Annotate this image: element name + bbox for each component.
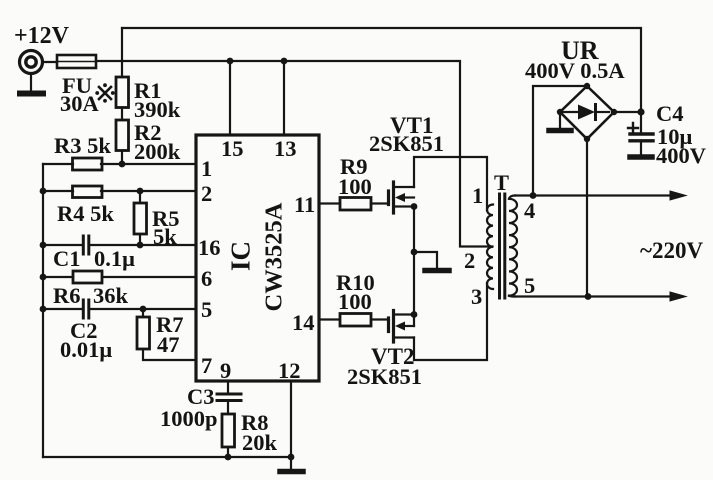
svg-text:30A: 30A <box>60 91 100 116</box>
resistor R8 20k <box>222 414 235 447</box>
svg-text:6: 6 <box>201 266 212 291</box>
label VT2 2SK851 <box>347 344 422 389</box>
label R8 20k <box>241 410 278 455</box>
svg-text:0.1μ: 0.1μ <box>94 246 135 271</box>
wire pin 14 line <box>319 318 340 320</box>
label R4 5k <box>57 201 114 226</box>
node pin5/R7 <box>140 306 147 313</box>
wire connector to fuse <box>43 61 57 63</box>
svg-text:+12V: +12V <box>14 23 70 49</box>
resistor R10 100 <box>340 314 371 327</box>
node pin13/rail <box>281 58 288 65</box>
svg-text:1: 1 <box>201 156 212 181</box>
svg-text:7: 7 <box>201 353 212 378</box>
svg-text:R4 5k: R4 5k <box>57 201 114 226</box>
op-amp/IC U1 CW3525A body <box>196 135 319 381</box>
label C3 1000p <box>160 384 218 431</box>
ground (MOSFET common source) <box>414 252 449 271</box>
resistor R1 390k <box>116 77 129 108</box>
capacitor C3 1000p <box>217 394 241 401</box>
wire bridge bottom corner to output5 <box>586 139 588 297</box>
resistor R4 5k <box>73 186 103 198</box>
label R1 390k <box>134 78 181 122</box>
svg-text:T: T <box>494 170 509 195</box>
wire VT1 drain riser to transformer pin1 <box>414 157 487 210</box>
node pin2/R5 junction <box>137 188 144 195</box>
wire VT1 source down bus <box>413 207 415 315</box>
wire R8 bottom lead <box>227 447 229 457</box>
node bus/pin2 <box>40 188 47 195</box>
svg-text:2SK851: 2SK851 <box>369 131 444 156</box>
label T and winding pins <box>464 170 535 309</box>
transformer T secondary winding <box>509 196 517 297</box>
svg-text:390k: 390k <box>134 97 181 122</box>
asterisk reference mark <box>95 83 114 102</box>
node source bus tap <box>411 249 418 256</box>
svg-text:100: 100 <box>338 289 372 314</box>
svg-text:3: 3 <box>471 284 482 309</box>
node R8/bottom rail <box>225 454 232 461</box>
label R6 36k <box>53 283 129 308</box>
svg-text:16: 16 <box>198 235 221 260</box>
node C4 tap <box>637 108 644 115</box>
wire pin 16 line <box>43 244 196 246</box>
label R2 200k <box>134 120 181 164</box>
svg-text:2: 2 <box>464 248 475 273</box>
wire pin 12 lead <box>290 381 292 457</box>
wire output line 4 with arrow <box>515 191 686 200</box>
ground (below +12V terminal) <box>20 74 43 94</box>
wire bridge right corner to C4 node <box>614 111 641 113</box>
svg-text:C4: C4 <box>656 101 684 126</box>
transistor Q2 VT2 2SK851 <box>389 311 415 343</box>
resistor R2 200k <box>116 120 129 151</box>
svg-text:47: 47 <box>157 332 180 357</box>
wire pin 11 line <box>319 202 340 204</box>
transistor Q1 VT1 2SK851 <box>389 182 415 213</box>
wire pin 2 line <box>43 190 196 192</box>
wire pin 9 lead <box>227 381 229 392</box>
transformer core <box>500 194 505 298</box>
node pin15/rail <box>227 58 234 65</box>
label C1 0.1u <box>53 246 135 271</box>
capacitor C1 0.1u <box>83 236 89 254</box>
svg-text:R3 5k: R3 5k <box>54 133 111 158</box>
ground (pin 12) <box>280 457 303 472</box>
label C4 10u 400V <box>656 101 706 168</box>
node bus/pin16 <box>40 242 47 249</box>
node output4/bridge feed <box>530 192 537 199</box>
svg-text:CW3525A: CW3525A <box>261 202 288 311</box>
svg-text:1000p: 1000p <box>160 406 218 431</box>
svg-text:~220V: ~220V <box>640 238 703 263</box>
label R5 5k <box>152 206 180 249</box>
svg-text:2: 2 <box>201 181 212 206</box>
svg-text:5: 5 <box>201 297 212 322</box>
wire VT2 drain to transformer pin3 <box>414 283 487 360</box>
svg-text:1: 1 <box>472 183 483 208</box>
svg-text:IC: IC <box>226 241 256 271</box>
node +12V label <box>14 23 70 49</box>
node R5/pin16 <box>137 242 144 249</box>
label R7 47 <box>156 312 184 357</box>
wire bottom rail <box>43 456 291 458</box>
wire pin 5 line <box>43 308 196 310</box>
resistor R3 5k <box>73 158 103 170</box>
wire C3 to R8 <box>227 403 229 415</box>
label ~220V <box>640 238 703 263</box>
node pin12/bottom rail <box>288 454 295 461</box>
label R3 5k <box>54 133 111 158</box>
capacitor C4 10u 400V <box>628 112 653 157</box>
label IC pin numbers <box>198 136 315 383</box>
svg-text:20k: 20k <box>242 430 278 455</box>
wire bridge top corner to output4 <box>533 86 587 196</box>
wire R2 bottom to pin1 line <box>121 151 123 165</box>
svg-text:9: 9 <box>220 358 231 383</box>
node output5/bridge feed <box>585 293 592 300</box>
svg-text:400V: 400V <box>656 143 706 168</box>
connector J1 (+12V input terminal) <box>20 51 43 74</box>
svg-text:200k: 200k <box>134 139 181 164</box>
wire pin 13 lead <box>283 61 285 135</box>
svg-text:100: 100 <box>338 174 372 199</box>
svg-text:14: 14 <box>292 310 315 335</box>
label R9 100 <box>338 154 372 199</box>
resistor R6 36k <box>73 271 102 283</box>
node VT2 source <box>411 311 418 318</box>
wire R5 top lead <box>139 191 141 203</box>
wire pin 6 line <box>43 276 196 278</box>
wire R7 bottom to pin 7 <box>143 349 196 360</box>
svg-text:C1: C1 <box>53 246 81 271</box>
label R10 100 <box>336 270 375 314</box>
wire R5 bottom lead <box>139 234 141 245</box>
label UR 400V 0.5A <box>525 36 625 83</box>
capacitor C2 0.01u <box>83 300 89 318</box>
wire output line 5 with arrow <box>515 292 686 301</box>
wire pin 1 line <box>43 163 196 165</box>
label VT1 2SK851 <box>369 113 444 156</box>
wire pin 15 lead <box>229 61 231 135</box>
svg-text:13: 13 <box>274 136 297 161</box>
node VT1 source <box>411 203 418 210</box>
wire R9 to VT1 gate <box>371 202 387 204</box>
svg-text:11: 11 <box>294 192 315 217</box>
ground (bridge left corner) <box>549 112 571 131</box>
node junction R2/pin1 <box>119 161 126 168</box>
wire top rail A <box>122 28 641 112</box>
label FU 30A <box>60 73 100 116</box>
wire R1 to R2 <box>121 108 123 121</box>
svg-text:12: 12 <box>278 358 301 383</box>
svg-text:R6: R6 <box>53 283 81 308</box>
resistor R7 47 <box>137 317 150 349</box>
svg-text:15: 15 <box>221 136 244 161</box>
svg-text:2SK851: 2SK851 <box>347 364 422 389</box>
svg-text:5: 5 <box>524 273 535 298</box>
resistor R9 100 <box>340 198 371 211</box>
svg-text:0.01μ: 0.01μ <box>60 337 112 362</box>
label C2 0.01u <box>60 318 112 362</box>
wire R10 to VT2 gate <box>371 318 387 320</box>
wire left bus <box>42 164 44 457</box>
svg-text:400V 0.5A: 400V 0.5A <box>525 58 625 83</box>
node bus/pin5 <box>40 306 47 313</box>
svg-text:36k: 36k <box>93 283 129 308</box>
node bus/pin6 <box>40 274 47 281</box>
transformer T primary winding <box>487 205 493 289</box>
resistor R5 5k <box>134 203 147 234</box>
svg-text:4: 4 <box>524 198 535 223</box>
wire rail B: fuse output to transformer center-tap feed <box>96 61 493 247</box>
wire R7 top lead <box>142 309 144 317</box>
fuse FU 30A <box>57 55 96 68</box>
diode bridge UR 400V 0.5A <box>557 83 617 142</box>
label IC CW3525A <box>226 202 288 311</box>
wire riser to top rail A and R1 top lead <box>121 28 123 77</box>
